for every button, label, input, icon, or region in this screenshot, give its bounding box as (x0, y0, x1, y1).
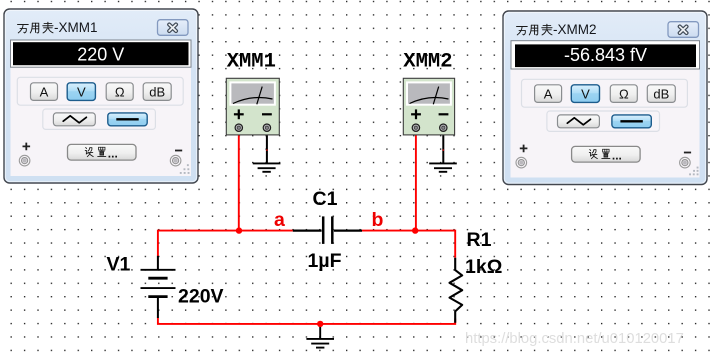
plus terminal jack (516, 157, 527, 168)
svg-text:1µF: 1µF (308, 250, 342, 272)
resistor R1 (450, 258, 463, 323)
button V (active) (571, 85, 599, 103)
wire: XMM1 - probe down to ground (266, 131, 268, 163)
button AC (sine) (558, 115, 600, 128)
svg-text:A: A (544, 87, 553, 102)
multimeter panel window XMM1 (4, 9, 198, 183)
red pin dot on XMM1 ground wire (266, 149, 267, 150)
button Ohm (106, 83, 133, 101)
svg-text:A: A (40, 85, 49, 100)
svg-text:XMM1: XMM1 (227, 51, 276, 74)
minus terminal jack (170, 155, 181, 166)
close button (668, 22, 699, 38)
svg-text:dB: dB (149, 85, 165, 100)
multimeter panel window XMM2 (503, 11, 707, 185)
wire: top-left loop (V1 top to node a) (158, 231, 293, 257)
waveform group box (43, 109, 156, 129)
battery V1 (141, 256, 176, 318)
minus terminal label (684, 152, 691, 154)
minus terminal jack (680, 157, 691, 168)
svg-text:220V: 220V (178, 285, 224, 307)
svg-text:V: V (77, 85, 86, 100)
wire: node b to R1 top (362, 231, 455, 258)
button DC (active) (612, 115, 651, 128)
multimeter icon XMM1 (226, 78, 279, 135)
button AC (sine) (53, 113, 95, 126)
mode group box (17, 77, 183, 105)
plus terminal label (520, 145, 528, 153)
minus terminal label (175, 150, 182, 152)
svg-text:https://blog.csdn.net/u0101200: https://blog.csdn.net/u010120017 (465, 331, 684, 347)
wire: XMM2 - probe down to ground (442, 131, 444, 163)
junction node a (236, 227, 242, 233)
capacitor C1 (293, 216, 362, 244)
svg-text:1kΩ: 1kΩ (465, 256, 502, 278)
waveform group box (547, 111, 660, 131)
svg-text:Ω: Ω (619, 87, 629, 102)
svg-text:-56.843 fV: -56.843 fV (564, 45, 647, 65)
svg-text:a: a (274, 209, 285, 231)
button Ohm (610, 85, 637, 103)
ground under XMM2 (429, 163, 457, 171)
display -56.843 fV (511, 41, 700, 69)
button dB (647, 85, 675, 103)
svg-text:...: ... (108, 146, 118, 160)
button V (active) (67, 83, 95, 101)
plus terminal jack (19, 155, 30, 166)
button A (31, 83, 58, 101)
svg-text:220 V: 220 V (77, 45, 124, 65)
junction node b (412, 227, 418, 233)
title 万用表-XMM2 (517, 22, 597, 37)
svg-text:Ω: Ω (115, 85, 125, 100)
title 万用表-XMM1 (18, 20, 98, 35)
button dB (143, 83, 171, 101)
mode group box (522, 79, 688, 107)
svg-text:V: V (581, 87, 590, 102)
settings button 设置... (68, 144, 137, 160)
wire: XMM1 + probe down to node a (238, 131, 240, 231)
svg-text:-XMM2: -XMM2 (553, 22, 597, 37)
display 220 V (11, 40, 192, 67)
svg-text:-XMM1: -XMM1 (54, 20, 98, 35)
resize grip (180, 164, 190, 174)
button A (535, 85, 562, 103)
wire: XMM2 + probe down to node b (415, 131, 417, 231)
multimeter icon XMM2 (403, 78, 454, 135)
svg-text:...: ... (612, 148, 622, 162)
svg-text:dB: dB (653, 87, 669, 102)
svg-text:b: b (372, 209, 384, 231)
svg-text:C1: C1 (313, 188, 338, 210)
ground at bottom net (306, 324, 334, 348)
close button (158, 20, 189, 36)
ground under XMM1 (253, 163, 281, 171)
red pin dot on XMM2 ground wire (443, 149, 444, 150)
wire: bottom return (V1 bottom to R1 bottom) (158, 318, 455, 324)
plus terminal label (23, 143, 31, 151)
svg-text:R1: R1 (467, 229, 492, 251)
button DC (active) (108, 113, 147, 126)
resize grip (689, 167, 698, 176)
svg-text:XMM2: XMM2 (403, 51, 452, 74)
junction bottom ground node (317, 321, 323, 327)
svg-text:V1: V1 (107, 253, 131, 275)
settings button 设置... (572, 146, 641, 162)
